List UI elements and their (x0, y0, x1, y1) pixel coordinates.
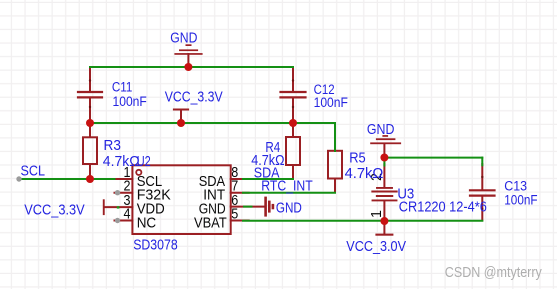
ground symbol right GND (370, 135, 401, 157)
wire C13 top corner (481, 158, 483, 166)
power symbol VCC_3.3V top (173, 109, 189, 124)
pin 6 + ground stem (231, 206, 265, 208)
wire VCC rail to R5 (334, 123, 336, 151)
capacitor C12 leads (292, 67, 294, 122)
svg-text:VCC_3.3V: VCC_3.3V (165, 89, 223, 106)
svg-text:R5: R5 (349, 150, 366, 166)
junction node top GND (184, 63, 192, 71)
junction node C12/R4/rail (289, 119, 297, 127)
svg-text:C11: C11 (112, 80, 132, 95)
pin 1 indicator dot (136, 170, 141, 175)
no-connect node SCL end (16, 176, 21, 181)
svg-text:CSDN @mtyterry: CSDN @mtyterry (445, 265, 543, 281)
svg-text:100nF: 100nF (314, 95, 348, 110)
junction node GND/battery (380, 154, 388, 162)
svg-text:GND: GND (367, 121, 395, 138)
svg-text:4: 4 (124, 207, 131, 223)
wire GND to C13 top (384, 157, 482, 159)
resistor R5 (328, 151, 342, 193)
wire VCC rail (90, 122, 335, 124)
capacitor C12 plates (281, 92, 306, 97)
wire RTC_INT pin7 to R5 (243, 192, 335, 194)
svg-text:4.7kΩ: 4.7kΩ (345, 166, 384, 182)
op-amp U2 IC body SD3078 (132, 165, 230, 234)
pin 3 hotspot mark (117, 206, 120, 208)
svg-text:4.7kΩ: 4.7kΩ (103, 154, 140, 170)
no-connect node pin 4 (115, 218, 120, 223)
svg-text:GND: GND (276, 199, 302, 216)
pin 1 (115, 178, 133, 180)
battery U3 plates (372, 188, 396, 201)
svg-text:VCC_3.3V: VCC_3.3V (24, 202, 84, 219)
svg-text:RTC_INT: RTC_INT (261, 177, 312, 194)
junction node VCC stem (177, 119, 185, 127)
junction node battery/VCC_3.0V (380, 217, 388, 225)
junction node SCL/R3 (86, 175, 94, 183)
capacitor C13 leads (481, 164, 483, 221)
svg-text:SCL: SCL (21, 163, 46, 180)
wire SDA pin8 to R4 (243, 178, 293, 180)
svg-text:SD3078: SD3078 (133, 237, 178, 253)
capacitor C11 leads (89, 67, 91, 122)
power symbol VCC_3.3V at pin 3 (103, 199, 105, 215)
svg-text:100nF: 100nF (113, 94, 147, 109)
svg-text:100nF: 100nF (504, 192, 537, 207)
power symbol VCC_3.0V bottom (375, 221, 393, 236)
svg-text:GND: GND (170, 30, 197, 47)
svg-text:1: 1 (369, 210, 385, 218)
pin 3 (104, 206, 132, 208)
wire VBAT pin5 to C13 (243, 220, 482, 222)
svg-text:5: 5 (231, 207, 238, 223)
ground symbol at pin 6 (264, 197, 274, 217)
svg-text:R3: R3 (104, 138, 121, 154)
svg-text:NC: NC (137, 214, 157, 231)
wire top rail (90, 66, 293, 68)
capacitor C13 plates (470, 190, 495, 195)
resistor R4 (286, 123, 300, 179)
junction node C11/R3/rail (86, 119, 94, 127)
svg-text:CR1220 12-4*6: CR1220 12-4*6 (399, 200, 487, 216)
pin 5 (231, 220, 249, 222)
pin 4 (115, 220, 133, 222)
battery U3 leads (383, 164, 385, 221)
svg-text:VCC_3.0V: VCC_3.0V (346, 238, 406, 255)
ground symbol top GND (174, 44, 202, 67)
resistor R3 (83, 123, 97, 179)
wire GND dot to battery (383, 158, 385, 166)
wire pin6 to ground (244, 206, 252, 208)
pin tip marks on capacitor leads (89, 79, 484, 210)
pin 2 (115, 192, 133, 194)
pin 7 (231, 192, 249, 194)
wire SCL (19, 178, 115, 180)
pin 8 (231, 178, 249, 180)
no-connect node pin 2 (115, 190, 120, 195)
capacitor C11 plates (78, 92, 102, 97)
svg-text:VBAT: VBAT (194, 214, 227, 231)
svg-text:U2: U2 (137, 154, 151, 170)
